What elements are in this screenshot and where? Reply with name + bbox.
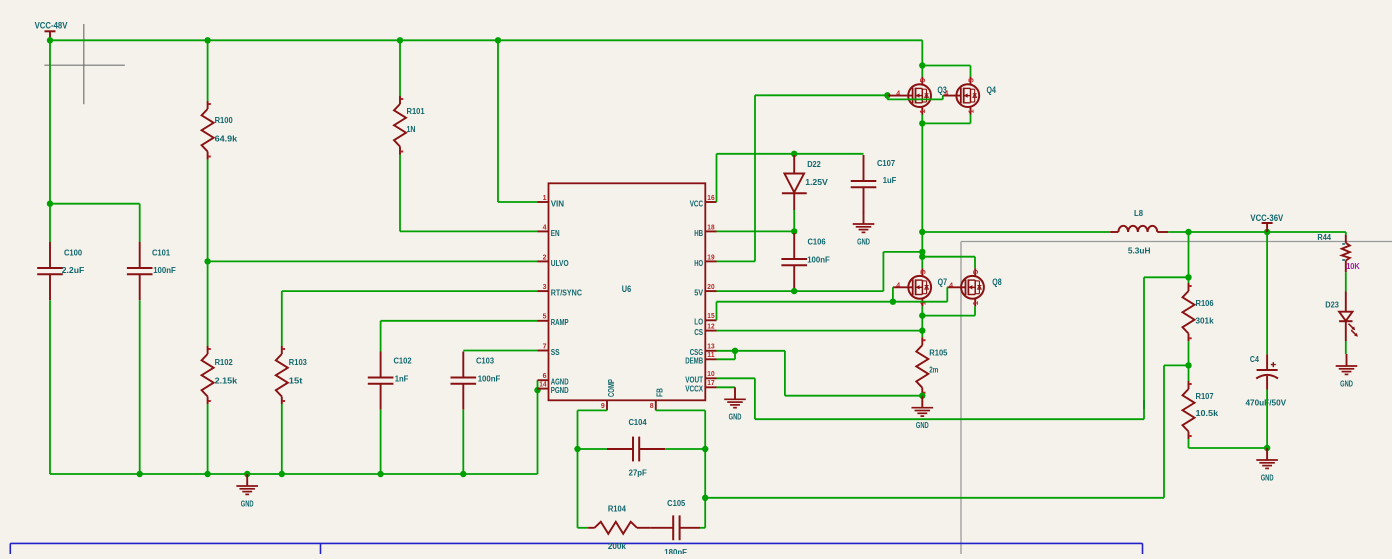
wire VOUT riser (1143, 277, 1145, 419)
svg-text:GND: GND (857, 237, 870, 246)
svg-text:100nF: 100nF (807, 255, 830, 265)
wire R107 across (1189, 447, 1268, 449)
svg-text:RT/SYNC: RT/SYNC (551, 288, 582, 298)
wire net RT/SYNC (282, 290, 538, 292)
svg-text:Q8: Q8 (992, 277, 1001, 287)
ground main GND (236, 474, 258, 508)
svg-text:CS: CS (694, 327, 703, 337)
svg-text:9: 9 (601, 403, 605, 410)
svg-text:200k: 200k (608, 541, 626, 551)
junction SW node top (919, 120, 925, 126)
junction R106 top node (1185, 274, 1191, 280)
svg-text:ULVO: ULVO (551, 258, 569, 268)
wire 5V to SW (883, 251, 922, 253)
wire COMP to corner (578, 409, 608, 411)
power flag VCC-36V (PWR36) (1250, 213, 1283, 232)
wire corner up to FB node (704, 498, 706, 528)
svg-text:2.2uF: 2.2uF (62, 265, 85, 275)
wire to R104 (578, 527, 589, 529)
junction GND rail/GND sym (244, 471, 250, 477)
wire net VIN (498, 201, 538, 203)
junction rail/VIN (495, 37, 501, 43)
junction divider mid node (1185, 362, 1191, 368)
capacitor C105 (650, 498, 700, 557)
svg-text:5: 5 (971, 270, 980, 274)
wire 5V riser (882, 252, 884, 291)
junction rail/R106 (1185, 229, 1191, 235)
capacitor C104 (607, 417, 665, 477)
svg-text:R102: R102 (215, 357, 233, 367)
svg-text:1nF: 1nF (395, 374, 409, 384)
svg-text:1: 1 (971, 301, 980, 305)
resistor R105 (916, 337, 947, 396)
wire R102 bottom to GND rail (207, 404, 209, 474)
wire to CS node (921, 316, 923, 331)
svg-text:GND: GND (729, 413, 742, 422)
svg-text:1uF: 1uF (883, 175, 897, 185)
junction GND rail/C103 (460, 471, 466, 477)
wire gate link down (886, 95, 888, 99)
wire Q8 gate riser (946, 287, 948, 301)
resistor R102 (202, 346, 238, 404)
wire drain link low (922, 256, 975, 258)
svg-text:5: 5 (543, 314, 547, 321)
svg-text:1N: 1N (407, 124, 416, 134)
svg-text:GND: GND (1261, 473, 1274, 482)
wire CSG to R105 bottom (785, 395, 922, 397)
wire GND rail (50, 473, 538, 475)
wire D22 bottom (793, 210, 795, 231)
wire rail to R100 (207, 40, 209, 101)
wire HO riser (754, 95, 756, 261)
svg-text:D23: D23 (1325, 300, 1339, 310)
wire net CS (717, 330, 923, 332)
svg-text:1: 1 (918, 109, 927, 113)
wire gate link up (942, 95, 944, 99)
svg-text:GND: GND (916, 421, 929, 430)
wire R101 bottom to EN (399, 155, 401, 232)
wire C105 to corner (700, 527, 705, 529)
junction C106/5V (791, 288, 797, 294)
wire C100 top lead (49, 204, 51, 242)
svg-text:11: 11 (707, 352, 714, 359)
op-amp U6 (controller IC) (538, 183, 717, 410)
wire VIN riser (497, 40, 499, 202)
transistor Q8 (947, 268, 1001, 306)
svg-text:RAMP: RAMP (551, 317, 569, 327)
capacitor C106 (781, 233, 829, 291)
wire net HB (717, 230, 795, 232)
svg-text:4: 4 (896, 91, 900, 98)
svg-text:SS: SS (551, 347, 560, 357)
svg-text:R44: R44 (1317, 232, 1331, 242)
junction CSG/DEMB (732, 348, 738, 354)
junction R105 bottom node (919, 393, 925, 399)
svg-text:C100: C100 (64, 248, 82, 258)
wire R106 lead (1188, 277, 1190, 283)
svg-text:27pF: 27pF (629, 467, 647, 477)
capacitor C107 (851, 155, 897, 213)
svg-text:C104: C104 (628, 417, 646, 427)
resistor R107 (1183, 381, 1219, 439)
svg-text:1.25V: 1.25V (805, 177, 828, 187)
wire VOUT to R106 (1144, 276, 1189, 278)
wire net LO across (717, 301, 893, 303)
capacitor C103 (451, 352, 501, 410)
svg-text:14: 14 (539, 382, 546, 389)
wire FB down 2 (704, 449, 706, 498)
wire CSG down (784, 351, 786, 396)
svg-text:18: 18 (707, 224, 714, 231)
junction SW/5V (919, 249, 925, 255)
svg-text:VCC-48V: VCC-48V (35, 21, 68, 31)
wire rail to R101 (399, 40, 401, 96)
svg-text:4: 4 (944, 91, 948, 98)
svg-text:C103: C103 (476, 356, 494, 366)
junction rail/C100 (47, 37, 53, 43)
wire SW riser (921, 123, 923, 232)
svg-text:301k: 301k (1196, 316, 1214, 326)
svg-text:10.5k: 10.5k (1196, 408, 1219, 418)
resistor R100 (202, 101, 238, 160)
svg-text:VCC-36V: VCC-36V (1250, 213, 1283, 223)
resistor R103 (276, 346, 307, 404)
svg-text:LO: LO (694, 317, 703, 327)
wire HO to Q3 gate (755, 94, 887, 96)
transistor Q3 (887, 77, 946, 115)
wire R103 bottom to GND rail (281, 404, 283, 474)
transistor Q4 (943, 77, 996, 115)
wire Q3 source to node (921, 115, 923, 124)
wire gate link across (887, 98, 942, 100)
junction rail/R100 (204, 37, 210, 43)
svg-text:100nF: 100nF (478, 374, 501, 384)
wire net CSG (717, 350, 736, 352)
ground C107 GND (853, 212, 875, 246)
wire SW segment (921, 232, 923, 268)
ground C4 GND (1256, 448, 1278, 482)
diode D22 (zener) (782, 155, 828, 210)
wire net FB long (705, 497, 1164, 499)
svg-text:R100: R100 (215, 115, 233, 125)
sheet boundary line (adjacent page) (961, 242, 1392, 555)
marker (blue tick) (1143, 400, 1145, 409)
junction Q7 gate node (890, 299, 896, 305)
svg-text:FB: FB (655, 388, 665, 397)
svg-text:C106: C106 (807, 236, 825, 246)
wire source link low (922, 315, 975, 317)
svg-text:16: 16 (707, 195, 714, 202)
svg-text:13: 13 (707, 344, 714, 351)
wire C101 bottom to GND rail (139, 300, 141, 474)
junction GND rail/R103 (279, 471, 285, 477)
junction Q3/Q4 drain node (919, 62, 925, 68)
junction SW/L8 (919, 229, 925, 235)
wire source link (922, 122, 970, 124)
junction CS node (919, 327, 925, 333)
svg-text:10K: 10K (1346, 261, 1360, 271)
resistor R104 (588, 503, 650, 551)
wire RT node to R103 (281, 291, 283, 346)
wire net SS (463, 350, 537, 352)
resistor R44 (1317, 232, 1360, 272)
junction GND rail/C102 (377, 471, 383, 477)
svg-text:R105: R105 (929, 348, 947, 358)
svg-text:1: 1 (966, 109, 975, 113)
svg-text:DEMB: DEMB (685, 356, 703, 366)
inductor L8 (1110, 208, 1168, 256)
svg-text:6: 6 (543, 373, 547, 380)
ground R105 GND (912, 396, 934, 430)
svg-text:5.3uH: 5.3uH (1128, 245, 1151, 255)
wire FB riser (1163, 365, 1165, 497)
junction D22 top (791, 151, 797, 157)
svg-text:2m: 2m (929, 364, 938, 374)
junction C100 node (47, 201, 53, 207)
wire net EN (400, 230, 538, 232)
capacitor C102 (368, 352, 412, 410)
svg-text:EN: EN (551, 228, 560, 238)
wire FB stub right (656, 409, 705, 411)
wire net ULVO (208, 260, 538, 262)
svg-text:D22: D22 (807, 159, 821, 169)
svg-text:HB: HB (694, 228, 703, 238)
wire RAMP corner down (380, 321, 382, 352)
wire C100 bottom to GND rail (49, 300, 51, 474)
wire Q7 source down (921, 306, 923, 315)
svg-text:C101: C101 (152, 248, 170, 258)
wire VOUT across (755, 418, 1144, 420)
svg-text:GND: GND (241, 499, 254, 508)
junction HB/D22/C106 (791, 228, 797, 234)
wire R107 to corner (1188, 439, 1190, 448)
junction Q7/Q8 drain node (919, 254, 925, 260)
wire drain link (922, 65, 970, 67)
svg-text:C105: C105 (667, 498, 685, 508)
wire net VCCX (717, 386, 736, 388)
junction rail/R101 (397, 37, 403, 43)
svg-text:12: 12 (707, 324, 714, 331)
svg-text:5: 5 (918, 78, 927, 82)
wire CS to R105 (921, 331, 923, 338)
svg-text:R106: R106 (1196, 298, 1214, 308)
svg-text:5: 5 (966, 78, 975, 82)
diode D23 (LED) (1325, 292, 1358, 342)
wire VCC-36V rail (1168, 231, 1346, 233)
wire Q7 gate riser (892, 287, 894, 301)
svg-text:7: 7 (543, 343, 547, 350)
title block frame (10, 543, 1142, 554)
svg-text:64.9k: 64.9k (215, 134, 238, 144)
svg-text:L8: L8 (1134, 208, 1143, 218)
svg-text:VCCX: VCCX (685, 384, 703, 394)
power flag VCC-48V (PWR48) (35, 21, 68, 41)
wire net VOUT (717, 377, 755, 379)
svg-text:470uF/50V: 470uF/50V (1245, 397, 1286, 407)
junction FB node (702, 495, 708, 501)
svg-text:C107: C107 (877, 158, 895, 168)
svg-text:PGND: PGND (551, 385, 569, 395)
svg-text:8: 8 (650, 403, 654, 410)
wire C104 right lead wire (665, 448, 705, 450)
wire VOUT down (754, 378, 756, 419)
svg-text:4: 4 (896, 282, 900, 289)
junction PGND node (534, 387, 540, 393)
svg-text:C102: C102 (393, 356, 411, 366)
wire C104 left lead wire (578, 448, 608, 450)
resistor R101 (394, 96, 425, 155)
svg-text:R104: R104 (608, 503, 626, 513)
wire R100 bottom to ULVO node (207, 160, 209, 262)
junction GND rail/C101 (137, 471, 143, 477)
svg-text:20: 20 (707, 284, 714, 291)
junction C104 left (574, 446, 580, 452)
wire Q4 source up (970, 115, 972, 124)
cursor crosshair (44, 24, 124, 104)
svg-text:Q7: Q7 (938, 277, 947, 287)
capacitor C101 (127, 242, 176, 300)
ground D23 GND (1336, 354, 1358, 388)
wire VCC pin up (716, 154, 718, 202)
wire Q8 source up (974, 306, 976, 315)
wire Q4 drain drop (970, 66, 972, 77)
svg-text:5V: 5V (694, 288, 703, 298)
svg-text:VCC: VCC (690, 198, 703, 208)
wire net 5V (717, 290, 884, 292)
svg-text:3: 3 (543, 284, 547, 291)
svg-text:4: 4 (543, 224, 547, 231)
svg-text:2.15k: 2.15k (215, 376, 238, 386)
wire C4 to bottom node (1266, 390, 1268, 449)
wire D23 to GND (1345, 341, 1347, 354)
wire R44 to D23 (1345, 272, 1347, 291)
wire net LO up (716, 302, 718, 321)
transistor Q7 (893, 268, 947, 306)
svg-text:15t: 15t (289, 376, 303, 386)
junction source node low (919, 312, 925, 318)
wire C100 node to C101 (50, 203, 140, 205)
junction Q3 gate node (884, 92, 890, 98)
ground VCCX GND (724, 387, 746, 421)
wire rail corner down (921, 40, 923, 76)
junction rail/C4 (1264, 229, 1270, 235)
wire rail to R106 node (1188, 232, 1190, 277)
svg-text:5: 5 (918, 270, 927, 274)
svg-text:COMP: COMP (606, 379, 616, 397)
wire rail to C4 (1266, 232, 1268, 354)
wire DEMB riser (734, 351, 736, 360)
wire ULVO node to R102 (207, 261, 209, 346)
svg-text:4: 4 (949, 282, 953, 289)
svg-text:1: 1 (543, 195, 547, 202)
svg-text:GND: GND (1340, 379, 1353, 388)
wire net RAMP (381, 320, 538, 322)
wire Q8 drain drop (974, 257, 976, 269)
wire PGND riser down (537, 390, 539, 474)
svg-text:Q4: Q4 (987, 85, 996, 95)
svg-text:VIN: VIN (551, 198, 564, 208)
junction GND rail/R102 (204, 471, 210, 477)
wire VCC-48V down to C100 node (49, 40, 51, 203)
wire FB down (704, 410, 706, 449)
svg-text:2: 2 (543, 254, 547, 261)
wire C102 bottom to GND rail (380, 410, 382, 474)
wire FB to divider (1164, 364, 1189, 366)
wire left branch down (577, 449, 579, 528)
capacitor C100 (37, 242, 84, 300)
wire gate link low (893, 301, 947, 303)
wire R106 to mid node (1188, 341, 1190, 365)
svg-text:U6: U6 (622, 284, 631, 294)
wire net DEMB (717, 358, 736, 360)
capacitor C4 (polarized) (1245, 354, 1286, 407)
junction C4 bottom node (1264, 445, 1270, 451)
svg-text:17: 17 (707, 380, 714, 387)
svg-text:180pF: 180pF (664, 547, 687, 554)
svg-text:15: 15 (707, 313, 714, 320)
svg-text:R107: R107 (1196, 391, 1214, 401)
wire SW to L8 (922, 231, 1110, 233)
wire COMP corner down (577, 410, 579, 449)
junction C104 right (702, 446, 708, 452)
svg-text:HO: HO (694, 258, 703, 268)
svg-text:100nF: 100nF (153, 265, 176, 275)
svg-text:10: 10 (707, 371, 714, 378)
wire mid to R107 (1188, 365, 1190, 381)
wire rail corner to R44 (1345, 232, 1347, 235)
wire CSG across (735, 350, 785, 352)
wire net HO (717, 260, 756, 262)
resistor R106 (1183, 283, 1214, 341)
wire VCC to C107 (717, 153, 864, 155)
junction ULVO node (204, 258, 210, 264)
wire C101 top lead (139, 204, 141, 242)
svg-text:C4: C4 (1250, 354, 1259, 364)
wire VCC-48V top rail (50, 39, 922, 41)
svg-text:R101: R101 (407, 106, 425, 116)
svg-text:19: 19 (707, 254, 714, 261)
wire C103 bottom to GND rail (462, 410, 464, 474)
svg-text:R103: R103 (289, 357, 307, 367)
wire AGND to PGND (537, 380, 539, 390)
